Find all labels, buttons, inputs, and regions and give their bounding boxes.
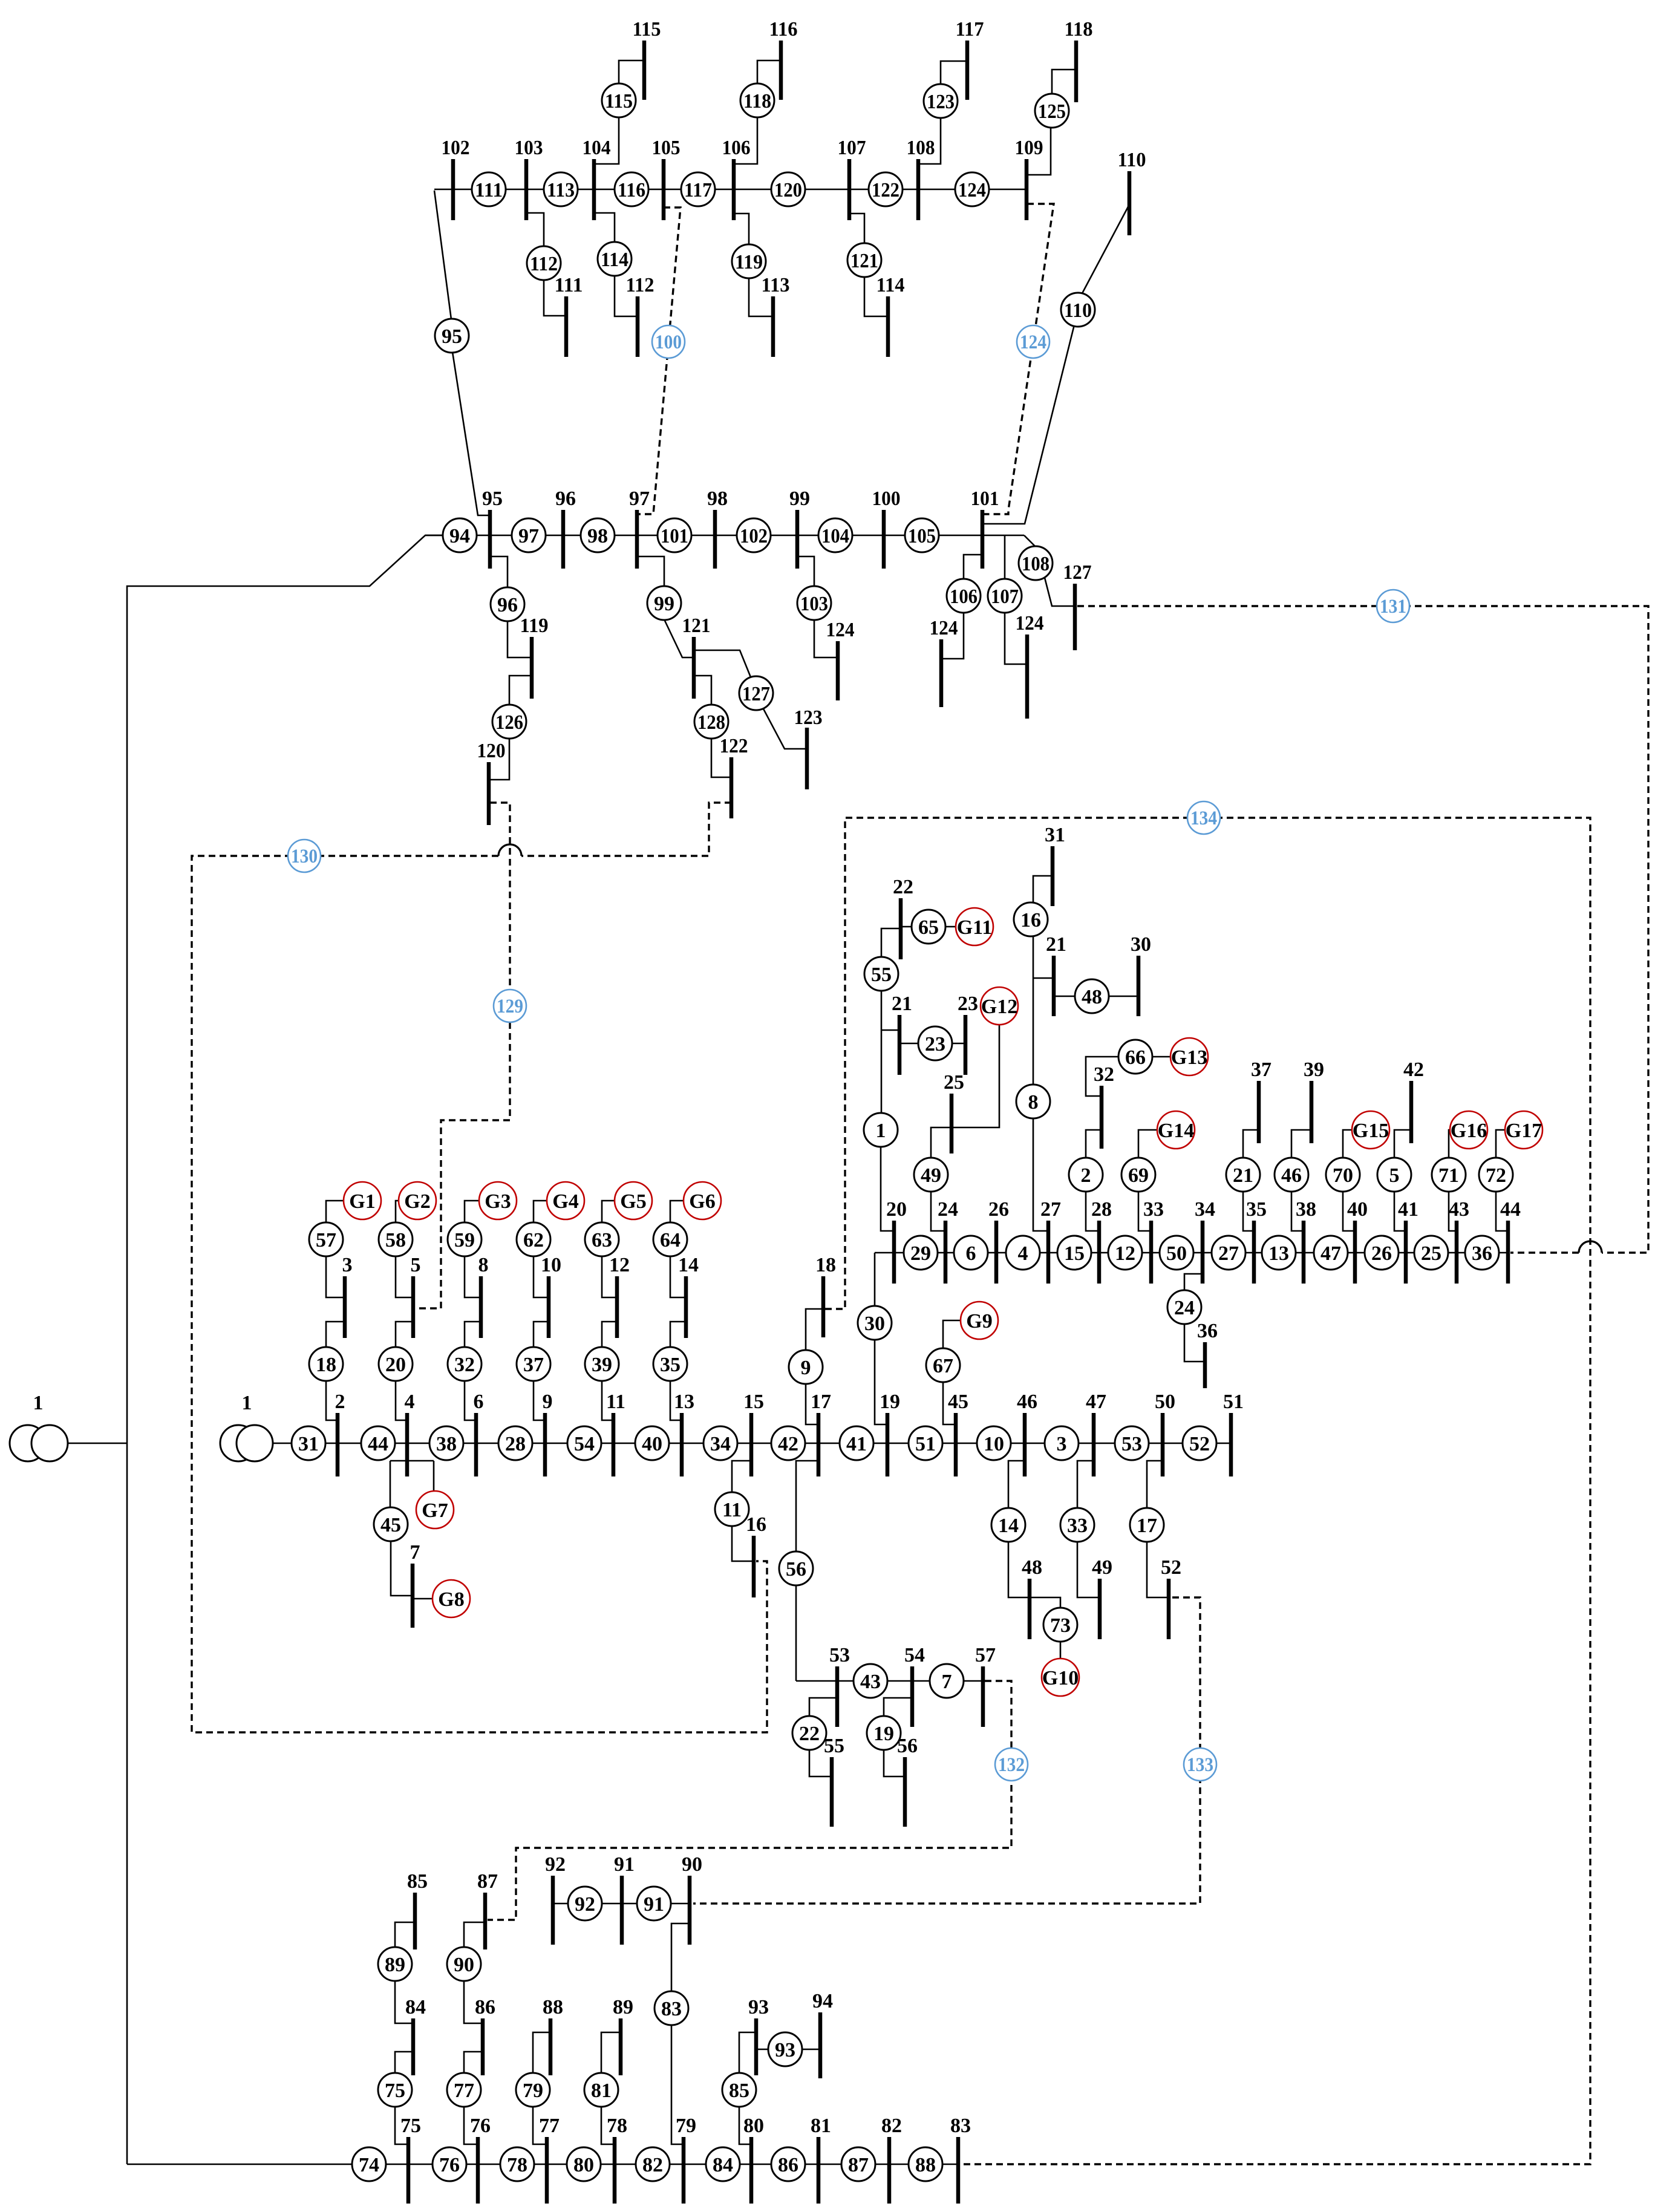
svg-text:G2: G2 (404, 1190, 430, 1213)
wire sw121-bus114 (864, 276, 888, 316)
bus 80 (743, 2115, 764, 2204)
bus 24 (938, 1198, 958, 1284)
svg-text:92: 92 (575, 1893, 595, 1916)
wire bus88-sw79 (533, 2032, 550, 2073)
switch 114 (598, 242, 632, 276)
svg-text:122: 122 (720, 735, 748, 757)
bus 93 (748, 1996, 769, 2075)
svg-text:88: 88 (543, 1996, 563, 2018)
switch 67 (926, 1348, 960, 1382)
svg-text:108: 108 (1022, 553, 1049, 575)
switch 55 (864, 957, 898, 991)
wire sw108-bus127 (1045, 578, 1075, 606)
svg-text:85: 85 (407, 1870, 428, 1893)
wire sw123-bus108 (918, 117, 941, 164)
svg-text:45: 45 (380, 1514, 401, 1536)
bus 89 (613, 1996, 633, 2075)
switch 7 (930, 1664, 964, 1698)
svg-text:18: 18 (316, 1354, 336, 1376)
switch 123 (924, 84, 958, 118)
svg-text:41: 41 (846, 1433, 867, 1455)
svg-text:103: 103 (800, 593, 828, 615)
svg-text:103: 103 (515, 137, 543, 159)
wire sw65-G11 (945, 926, 956, 928)
wire bus17-sw56 (796, 1461, 818, 1552)
wire chain1 mid (326, 1322, 345, 1347)
bus 92 (545, 1853, 566, 1945)
svg-text:99: 99 (654, 593, 674, 615)
svg-text:28: 28 (505, 1433, 526, 1455)
bus 35 (1246, 1198, 1267, 1284)
svg-text:93: 93 (775, 2039, 795, 2061)
svg-text:133: 133 (1187, 1754, 1213, 1776)
switch 74 (352, 2147, 386, 2181)
wire G2-sw (396, 1201, 399, 1222)
svg-text:105: 105 (652, 137, 681, 159)
svg-text:62: 62 (523, 1229, 544, 1251)
svg-text:43: 43 (860, 1671, 881, 1693)
wire sw67-bus45 (943, 1382, 956, 1424)
wire sw55-sw1 (881, 990, 883, 1114)
svg-text:104: 104 (821, 525, 849, 547)
bus 123 (794, 706, 823, 789)
svg-text:100: 100 (872, 488, 901, 510)
svg-text:44: 44 (368, 1433, 388, 1455)
switch 13 (1262, 1236, 1296, 1270)
bus 15 (743, 1391, 764, 1476)
wire chain5 mid (602, 1322, 617, 1347)
svg-text:1: 1 (876, 1120, 886, 1142)
svg-text:32: 32 (454, 1354, 475, 1376)
svg-text:1: 1 (33, 1392, 44, 1414)
switch 80 (567, 2147, 601, 2181)
svg-text:40: 40 (1347, 1198, 1368, 1221)
bottom feeder wire (127, 2164, 958, 2165)
svg-text:G12: G12 (981, 996, 1017, 1018)
svg-text:105: 105 (908, 525, 936, 547)
svg-text:79: 79 (676, 2115, 696, 2137)
svg-text:52: 52 (1161, 1556, 1181, 1579)
transformer1 wire (68, 1443, 127, 1444)
wire sw118-bus106 (734, 117, 757, 164)
svg-text:53: 53 (1121, 1433, 1142, 1455)
wire bus93-sw85 (739, 2032, 756, 2073)
wire sw1-bus20 (881, 1146, 894, 1231)
svg-text:78: 78 (507, 2154, 527, 2176)
bus 34 (1195, 1198, 1215, 1284)
wire G4-sw (534, 1201, 547, 1222)
svg-text:51: 51 (1223, 1391, 1244, 1413)
svg-text:50: 50 (1166, 1242, 1187, 1265)
switch 93 (768, 2032, 802, 2066)
switch 124 (955, 172, 989, 206)
bus 104 (583, 137, 611, 220)
wire G17-sw72 (1496, 1130, 1505, 1158)
svg-text:90: 90 (682, 1853, 702, 1876)
switch 63 (585, 1222, 619, 1256)
transformer 1 (main source) (220, 1392, 273, 1461)
svg-text:117: 117 (956, 18, 984, 41)
switch 120 (771, 172, 805, 206)
svg-text:96: 96 (555, 488, 576, 510)
wire G9-sw67 (943, 1320, 961, 1349)
switch 20 (379, 1347, 413, 1381)
switch 75 (378, 2073, 412, 2107)
switch 122 (869, 172, 903, 206)
svg-text:5: 5 (1389, 1164, 1400, 1187)
generator G16 (1450, 1111, 1487, 1149)
switch 43 (854, 1664, 887, 1698)
switch 102 (737, 518, 771, 552)
svg-text:69: 69 (1128, 1164, 1149, 1187)
svg-text:23: 23 (925, 1033, 945, 1055)
bus 14 (678, 1254, 699, 1338)
bus 12 (609, 1254, 630, 1338)
svg-text:33: 33 (1143, 1198, 1164, 1221)
switch 118 (740, 83, 774, 117)
bus 94 (812, 1990, 833, 2078)
bus 5 (411, 1254, 421, 1338)
switch 19 (867, 1716, 901, 1750)
svg-text:45: 45 (948, 1391, 968, 1413)
svg-text:122: 122 (872, 179, 899, 201)
switch 107 (988, 579, 1022, 613)
svg-text:48: 48 (1082, 986, 1102, 1008)
bus 110 (1118, 149, 1146, 235)
switch 30 (858, 1306, 892, 1340)
bus 6 (474, 1391, 484, 1476)
wire bus117-sw123 (941, 61, 967, 85)
wire chain6 mid (670, 1322, 686, 1347)
switch 127 (739, 676, 773, 710)
wire sw33-bus49 (1077, 1541, 1100, 1597)
wire sw107-bus124c (1005, 612, 1027, 664)
switch 38 (429, 1426, 463, 1460)
svg-text:116: 116 (769, 18, 798, 41)
svg-text:29: 29 (910, 1242, 931, 1265)
svg-text:10: 10 (541, 1254, 561, 1276)
svg-text:63: 63 (592, 1229, 612, 1251)
bus 55 (824, 1735, 844, 1827)
wire sw125-bus109 (1027, 127, 1051, 175)
svg-text:118: 118 (743, 90, 771, 113)
wire sw77-bus76 (464, 2106, 478, 2144)
svg-text:98: 98 (707, 488, 728, 510)
wire bus84-sw75 (395, 2052, 413, 2073)
switch 70 (1326, 1158, 1360, 1192)
svg-text:7: 7 (942, 1671, 952, 1693)
svg-text:43: 43 (1449, 1198, 1469, 1221)
wire chain3 upper (465, 1256, 481, 1297)
wire bus4-G7-sw45 (390, 1460, 434, 1462)
bus 90 (682, 1853, 702, 1945)
switch 57 (309, 1222, 343, 1256)
svg-text:37: 37 (523, 1354, 544, 1376)
bus 49 (1092, 1556, 1112, 1639)
svg-text:89: 89 (613, 1996, 633, 2018)
svg-text:124: 124 (826, 619, 855, 641)
bus 43 (1449, 1198, 1469, 1284)
svg-text:19: 19 (873, 1723, 894, 1745)
svg-text:2: 2 (335, 1391, 345, 1413)
switch 6 (954, 1236, 988, 1270)
switch 115 (602, 83, 636, 117)
bus 50 (1155, 1391, 1175, 1476)
bus 42 (1403, 1059, 1424, 1143)
switch 50 (1160, 1236, 1193, 1270)
bus 13 (674, 1391, 694, 1476)
wire bus104-sw114 (594, 213, 615, 243)
switch 28 (498, 1426, 532, 1460)
wire bus97-sw99 (637, 556, 664, 587)
bus 4 (405, 1391, 415, 1476)
wire bus21a-sw23 (899, 1043, 919, 1045)
wire bus101-sw106 (964, 555, 982, 579)
wire jog bus21a (881, 1029, 899, 1031)
bus 121 (682, 615, 711, 699)
switch 92 (568, 1887, 602, 1920)
bus 127 (1063, 561, 1092, 650)
svg-text:30: 30 (1131, 933, 1151, 956)
svg-text:128: 128 (697, 711, 725, 734)
wire sw119-bus113 (749, 278, 773, 316)
wire bus46-sw14 (1008, 1461, 1025, 1509)
tie line 124 (bus109-bus101) (983, 204, 1054, 514)
bus 51 (1223, 1391, 1244, 1476)
svg-text:64: 64 (660, 1229, 681, 1251)
wire sw103-bus124a (814, 619, 838, 657)
switch 112 (527, 246, 561, 280)
switch 16 (1014, 902, 1048, 936)
bus 32 (1094, 1063, 1114, 1149)
switch 90 (447, 1947, 481, 1981)
svg-text:101: 101 (661, 525, 688, 547)
tie line 131 (bus127-bus44) (1077, 606, 1648, 1253)
generator G14 (1157, 1111, 1195, 1149)
svg-text:17: 17 (1137, 1515, 1157, 1537)
bus 118 (1065, 18, 1093, 102)
svg-text:50: 50 (1155, 1391, 1175, 1413)
svg-text:115: 115 (633, 18, 661, 41)
svg-text:52: 52 (1189, 1433, 1210, 1455)
svg-text:130: 130 (291, 846, 318, 867)
switch 3 (1045, 1426, 1079, 1460)
switch 72 (1479, 1158, 1513, 1192)
bus 124 (826, 619, 855, 700)
svg-text:34: 34 (1195, 1198, 1215, 1221)
svg-text:16: 16 (746, 1513, 766, 1536)
switch 53 (1115, 1426, 1149, 1460)
svg-text:99: 99 (789, 488, 810, 510)
wire sw66-G13 (1152, 1056, 1170, 1058)
wire sw23-bus23 (952, 1043, 965, 1045)
svg-text:84: 84 (405, 1996, 426, 2018)
svg-text:95: 95 (442, 325, 462, 348)
svg-text:30: 30 (864, 1313, 885, 1335)
svg-text:G7: G7 (422, 1499, 448, 1522)
feeder53 wire (796, 1680, 983, 1682)
bus 84 (405, 1996, 426, 2075)
bus 53 (829, 1644, 850, 1727)
switch 83 (654, 1991, 688, 2025)
bus 17 (811, 1391, 831, 1476)
bus 21 (892, 993, 912, 1075)
switch 99 (647, 586, 681, 620)
svg-text:46: 46 (1281, 1164, 1302, 1187)
switch 27 (1212, 1236, 1245, 1270)
switch 42 (771, 1426, 805, 1460)
switch 126 (492, 705, 526, 739)
svg-text:G1: G1 (349, 1190, 375, 1213)
wire sw19-bus56 (884, 1749, 905, 1776)
wire sw81-bus78 (601, 2106, 615, 2144)
switch 23 (918, 1026, 952, 1060)
wire sw46-bus38 (1291, 1191, 1304, 1231)
switch 101 (658, 518, 691, 552)
generator G4 (547, 1182, 584, 1219)
bus 26 (988, 1198, 1009, 1284)
switch 113 (544, 172, 578, 206)
wire jog bus21b (1033, 977, 1054, 979)
switch 110 (1061, 293, 1095, 327)
switch 128 (694, 705, 728, 739)
switch 95 (435, 319, 469, 353)
svg-text:58: 58 (385, 1229, 406, 1251)
wire sw21-bus35 (1243, 1191, 1254, 1231)
wire sw128-bus122 (711, 738, 731, 777)
bus 2 (335, 1391, 345, 1476)
tie switch 129 (494, 990, 526, 1022)
svg-text:25: 25 (1421, 1242, 1441, 1265)
svg-text:26: 26 (1371, 1242, 1392, 1265)
wire sw49-bus24 (931, 1191, 945, 1231)
svg-text:6: 6 (966, 1242, 976, 1265)
wire sw56-feeder53 (795, 1585, 797, 1681)
svg-text:22: 22 (893, 876, 913, 898)
switch 119 (732, 244, 766, 278)
wire G6-sw (670, 1201, 684, 1222)
svg-text:89: 89 (385, 1954, 405, 1976)
wire bus87-sw90 (464, 1922, 485, 1948)
svg-text:G13: G13 (1171, 1046, 1207, 1069)
wire sw89-bus84 (395, 1980, 413, 2023)
bus 99 (789, 488, 810, 569)
bus 10 (541, 1254, 561, 1338)
wire bus102-sw95 (434, 191, 451, 319)
svg-text:13: 13 (1268, 1242, 1289, 1265)
wire bus107-sw121 (849, 214, 864, 244)
bus 109 (1015, 137, 1043, 220)
svg-text:47: 47 (1086, 1391, 1106, 1413)
svg-text:11: 11 (606, 1391, 625, 1413)
svg-text:131: 131 (1380, 596, 1406, 618)
svg-text:123: 123 (927, 91, 955, 113)
wire sw95-bus95 (452, 352, 490, 515)
svg-text:37: 37 (1251, 1059, 1271, 1081)
bus 91 (614, 1853, 635, 1945)
generator G5 (615, 1182, 652, 1219)
wire sw112-bus111 (544, 279, 566, 316)
switch 82 (636, 2147, 670, 2181)
bus 37 (1251, 1059, 1271, 1143)
svg-text:120: 120 (774, 179, 802, 201)
bus 114 (876, 274, 905, 357)
svg-text:111: 111 (555, 274, 583, 296)
svg-text:84: 84 (713, 2154, 733, 2176)
svg-text:4: 4 (1018, 1242, 1028, 1265)
switch 117 (681, 172, 715, 206)
svg-text:106: 106 (950, 586, 978, 608)
svg-text:85: 85 (729, 2080, 749, 2102)
wire sw79-bus77 (533, 2106, 547, 2144)
switch 10 (977, 1426, 1011, 1460)
tie switch 100 (652, 325, 685, 358)
bus 44 (1500, 1198, 1521, 1284)
wire sw71-bus43 (1449, 1191, 1457, 1231)
svg-text:114: 114 (601, 249, 628, 271)
bus 116 (769, 18, 798, 100)
bus 39 (1304, 1059, 1324, 1143)
wire chain3 lower (465, 1381, 476, 1420)
svg-text:28: 28 (1091, 1198, 1112, 1221)
wire chain4 mid (534, 1322, 549, 1347)
feeder92 wire (553, 1903, 690, 1905)
wire sw110-bus110 (1082, 204, 1129, 293)
bus 97 (629, 488, 650, 569)
bus 82 (881, 2115, 902, 2204)
svg-text:31: 31 (1045, 824, 1065, 846)
svg-text:98: 98 (587, 525, 608, 547)
svg-text:116: 116 (618, 179, 645, 201)
bus 28 (1091, 1198, 1112, 1284)
svg-text:83: 83 (950, 2115, 971, 2137)
bus 81 (811, 2115, 831, 2204)
svg-text:70: 70 (1333, 1164, 1353, 1187)
svg-text:G5: G5 (620, 1190, 646, 1213)
svg-text:91: 91 (644, 1893, 664, 1916)
svg-text:21: 21 (892, 993, 912, 1015)
wire bus42-sw5 (1394, 1130, 1411, 1158)
switch 5 (1377, 1158, 1411, 1192)
wire bus119-sw126 (509, 676, 532, 705)
wire drop G7 (433, 1461, 435, 1491)
left trunk wire (127, 535, 443, 2164)
tie switch 134 (1187, 801, 1220, 834)
switch 15 (1057, 1236, 1091, 1270)
bus 20 (886, 1198, 907, 1284)
svg-text:123: 123 (794, 706, 823, 729)
svg-text:8: 8 (478, 1254, 489, 1276)
switch 108 (1019, 546, 1053, 580)
bus 23 (958, 993, 978, 1075)
generator G7 (416, 1491, 454, 1528)
svg-text:112: 112 (530, 253, 558, 275)
switch 77 (447, 2073, 481, 2107)
svg-text:100: 100 (655, 331, 682, 353)
switch 12 (1108, 1236, 1142, 1270)
bus 108 (907, 137, 935, 220)
wire chain4 upper (534, 1256, 549, 1297)
svg-text:92: 92 (545, 1853, 566, 1876)
switch 48 (1075, 979, 1109, 1013)
svg-text:36: 36 (1197, 1320, 1218, 1342)
switch 59 (448, 1222, 481, 1256)
svg-text:3: 3 (1057, 1433, 1067, 1455)
svg-text:115: 115 (605, 90, 633, 113)
switch 111 (472, 172, 506, 206)
wire feeder-sw107 (1004, 535, 1006, 579)
svg-text:102: 102 (442, 137, 470, 159)
